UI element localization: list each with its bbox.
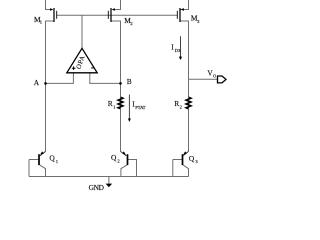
svg-text:R: R — [174, 99, 179, 108]
svg-text:PTAT: PTAT — [135, 105, 145, 110]
svg-text:GND: GND — [89, 183, 104, 192]
svg-text:2: 2 — [117, 159, 120, 164]
svg-text:1: 1 — [113, 105, 116, 110]
svg-text:2: 2 — [130, 21, 133, 26]
svg-text:Q: Q — [189, 154, 195, 163]
svg-text:I: I — [171, 42, 174, 51]
svg-text:Q: Q — [111, 153, 117, 162]
svg-text:3: 3 — [195, 159, 198, 164]
svg-text:2: 2 — [180, 105, 183, 110]
svg-text:1: 1 — [56, 159, 59, 164]
svg-text:B: B — [127, 77, 132, 86]
svg-text:A: A — [34, 78, 40, 87]
svg-text:1: 1 — [40, 20, 43, 25]
svg-text:Q: Q — [49, 154, 55, 163]
svg-text:D3: D3 — [175, 48, 180, 53]
svg-text:3: 3 — [197, 19, 200, 24]
svg-text:R: R — [108, 99, 113, 108]
svg-text:O: O — [213, 73, 216, 78]
